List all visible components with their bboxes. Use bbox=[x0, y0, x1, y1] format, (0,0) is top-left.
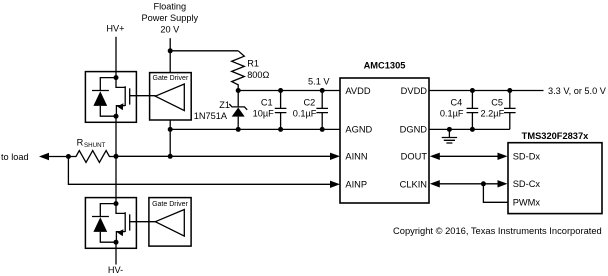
RSHUNT zigzag bbox=[68, 151, 116, 163]
node supply tap bbox=[168, 48, 173, 53]
diode D2 cathode bar bbox=[92, 216, 109, 218]
IC U4 TMS320F2837x bbox=[508, 131, 602, 214]
wire DOUT to SD-Dx bbox=[438, 155, 499, 157]
node C1 top bbox=[278, 88, 283, 93]
wire gate driver common down to shunt node bbox=[169, 120, 171, 156]
resistor RSHUNT bbox=[68, 138, 116, 163]
arrow at CLKIN bbox=[430, 180, 440, 187]
svg-text:to load: to load bbox=[1, 152, 29, 162]
svg-text:HV-: HV- bbox=[108, 265, 123, 275]
IGBT Q1 source arrow bbox=[117, 103, 123, 110]
node C2 top bbox=[320, 88, 325, 93]
node 5.1V bbox=[236, 88, 241, 93]
svg-text:Gate Driver: Gate Driver bbox=[153, 75, 189, 82]
svg-text:PWMx: PWMx bbox=[513, 198, 541, 208]
IGBT Q2 gate bar bbox=[129, 214, 131, 230]
svg-text:SD-Cx: SD-Cx bbox=[513, 179, 541, 189]
svg-text:AVDD: AVDD bbox=[345, 86, 370, 96]
svg-text:AINN: AINN bbox=[345, 152, 367, 162]
AMC1305 box bbox=[340, 78, 429, 203]
transistor module Q2 (bottom IGBT with freewheeling diode) bbox=[85, 198, 136, 249]
IGBT Q1 drain lead bbox=[116, 78, 125, 88]
svg-text:R1: R1 bbox=[247, 59, 259, 69]
svg-text:DGND: DGND bbox=[400, 125, 428, 135]
svg-text:C2: C2 bbox=[303, 97, 315, 107]
wire shunt rail to AINN bbox=[116, 155, 331, 157]
wire DVDD rail bbox=[429, 90, 544, 92]
TMS320F2837x box bbox=[508, 143, 602, 214]
capacitor C4 bbox=[440, 91, 478, 132]
wire supply to R1 bbox=[170, 50, 238, 52]
diode D2 wires bbox=[100, 204, 116, 243]
svg-text:0.1µF: 0.1µF bbox=[440, 109, 464, 119]
svg-text:R: R bbox=[77, 138, 84, 148]
gate driver box bbox=[150, 73, 192, 120]
svg-text:AMC1305: AMC1305 bbox=[364, 61, 406, 71]
wire PWMx tap bbox=[483, 184, 508, 203]
C5 top lead bbox=[509, 91, 511, 109]
wire supply to gate driver top bbox=[169, 38, 171, 72]
C4 top lead bbox=[471, 91, 473, 109]
svg-text:SD-Dx: SD-Dx bbox=[513, 152, 541, 162]
wire to load bbox=[48, 156, 68, 158]
svg-text:Gate Driver: Gate Driver bbox=[152, 201, 188, 208]
svg-text:Z1: Z1 bbox=[219, 100, 230, 110]
C5 bottom lead bbox=[509, 113, 511, 130]
svg-text:5.1 V: 5.1 V bbox=[308, 76, 330, 86]
wire 5.1V rail to AVDD bbox=[238, 90, 340, 92]
C2 plates bbox=[316, 108, 328, 112]
diode D1 cathode bar bbox=[92, 90, 109, 92]
C2 top lead bbox=[321, 91, 323, 109]
C4 bottom lead bbox=[471, 113, 473, 130]
svg-text:HV+: HV+ bbox=[106, 24, 124, 34]
wire HV+ to Q1 collector bbox=[115, 37, 117, 78]
node AGND at Z1 bbox=[236, 127, 241, 132]
svg-text:SHUNT: SHUNT bbox=[84, 142, 106, 149]
Z1 cathode lead bbox=[237, 91, 239, 107]
arrow into SD-Dx bbox=[498, 153, 508, 160]
capacitor C2 bbox=[293, 88, 328, 132]
IGBT Q1 channel bar bbox=[124, 86, 126, 106]
node Q1 emitter junction bbox=[114, 114, 119, 119]
node shunt left bbox=[66, 154, 71, 159]
C2 bottom lead bbox=[321, 113, 323, 130]
wire CLKIN to SD-Cx bbox=[438, 183, 499, 185]
module box bbox=[85, 198, 136, 249]
svg-text:800Ω: 800Ω bbox=[247, 70, 269, 80]
svg-text:C4: C4 bbox=[451, 97, 463, 107]
node Q2 emitter junction bbox=[114, 240, 119, 245]
wire Q2 gate to driver bbox=[130, 221, 156, 223]
zener diode Z1 bbox=[194, 91, 247, 130]
capacitor C1 bbox=[253, 88, 287, 132]
IC U1 AMC1305 bbox=[340, 61, 429, 203]
wire AINP from shunt left bbox=[68, 157, 331, 185]
wire HV- from Q2 emitter bbox=[115, 242, 117, 264]
svg-text:DVDD: DVDD bbox=[401, 86, 428, 96]
node DGND ground tap bbox=[447, 127, 452, 132]
resistor R1 bbox=[232, 51, 270, 91]
svg-text:Power Supply: Power Supply bbox=[141, 13, 198, 23]
C1 plates bbox=[275, 108, 287, 112]
Z1 anode lead bbox=[237, 117, 239, 130]
arrow into SD-Cx bbox=[498, 180, 508, 187]
svg-text:AINP: AINP bbox=[345, 180, 367, 190]
IGBT Q1 source lead bbox=[116, 106, 125, 117]
IGBT Q2 drain lead bbox=[116, 204, 125, 214]
transistor module Q1 (top IGBT with freewheeling diode) bbox=[85, 72, 136, 123]
gate driver amplifier triangle bbox=[155, 210, 184, 237]
node driver common at shunt rail bbox=[168, 154, 173, 159]
node Q1 collector junction bbox=[114, 75, 119, 80]
node C1 bottom bbox=[278, 127, 283, 132]
C1 bottom lead bbox=[280, 113, 282, 130]
arrow into AINP bbox=[330, 181, 340, 188]
Z1 anode triangle bbox=[232, 108, 245, 117]
svg-text:C1: C1 bbox=[261, 97, 273, 107]
gate driver U2 (top) bbox=[150, 73, 192, 120]
gate driver U3 (bottom) bbox=[149, 198, 191, 247]
ground stub bbox=[448, 129, 450, 137]
module box bbox=[85, 72, 136, 123]
node C4 bottom bbox=[470, 127, 475, 132]
svg-text:1N751A: 1N751A bbox=[194, 111, 228, 121]
node AGND at driver common bbox=[168, 127, 173, 132]
svg-text:Floating: Floating bbox=[153, 2, 186, 12]
svg-text:20 V: 20 V bbox=[160, 25, 180, 35]
C5 plates bbox=[504, 108, 516, 112]
svg-text:DOUT: DOUT bbox=[401, 152, 428, 162]
gate driver amplifier triangle bbox=[155, 84, 184, 111]
svg-text:C5: C5 bbox=[491, 97, 503, 107]
arrow into AINN bbox=[330, 153, 340, 160]
IGBT Q1 gate bar bbox=[129, 88, 131, 104]
diode D1 anode triangle bbox=[93, 91, 107, 106]
wire Q1 gate to driver bbox=[130, 95, 156, 97]
node C2 bottom bbox=[320, 127, 325, 132]
IGBT Q2 source arrow bbox=[117, 229, 123, 236]
Z1 cathode bar with zener wings bbox=[229, 104, 247, 110]
node C5 top bbox=[507, 88, 512, 93]
IGBT Q2 channel bar bbox=[124, 212, 126, 232]
wire AGND rail bbox=[170, 128, 340, 130]
wire DGND rail bbox=[429, 128, 510, 130]
wire Q1 emitter to Q2 collector bbox=[115, 116, 117, 203]
arrow to load bbox=[39, 153, 49, 160]
R1 zigzag bbox=[232, 51, 245, 91]
node PWMx tap bbox=[481, 181, 486, 186]
svg-text:CLKIN: CLKIN bbox=[400, 180, 427, 190]
node shunt right bbox=[114, 154, 119, 159]
IGBT Q2 source lead bbox=[116, 232, 125, 243]
node Q2 collector junction bbox=[114, 201, 119, 206]
node C4 top bbox=[470, 88, 475, 93]
diode D1 wires bbox=[100, 78, 116, 117]
capacitor C5 bbox=[481, 91, 516, 130]
diode D2 anode triangle bbox=[93, 217, 107, 232]
C1 top lead bbox=[280, 91, 282, 109]
svg-text:0.1µF: 0.1µF bbox=[293, 109, 317, 119]
ground bars bbox=[442, 138, 457, 144]
svg-text:Copyright © 2016, Texas Instru: Copyright © 2016, Texas Instruments Inco… bbox=[393, 226, 602, 236]
svg-text:2.2µF: 2.2µF bbox=[481, 109, 505, 119]
C4 plates bbox=[467, 108, 479, 112]
ground symbol bbox=[442, 129, 457, 143]
svg-text:10µF: 10µF bbox=[253, 109, 275, 119]
arrow at DOUT bbox=[430, 153, 440, 160]
svg-text:TMS320F2837x: TMS320F2837x bbox=[522, 131, 589, 141]
gate driver box bbox=[149, 198, 191, 247]
svg-text:3.3 V, or 5.0 V: 3.3 V, or 5.0 V bbox=[548, 86, 607, 96]
svg-text:AGND: AGND bbox=[345, 125, 372, 135]
